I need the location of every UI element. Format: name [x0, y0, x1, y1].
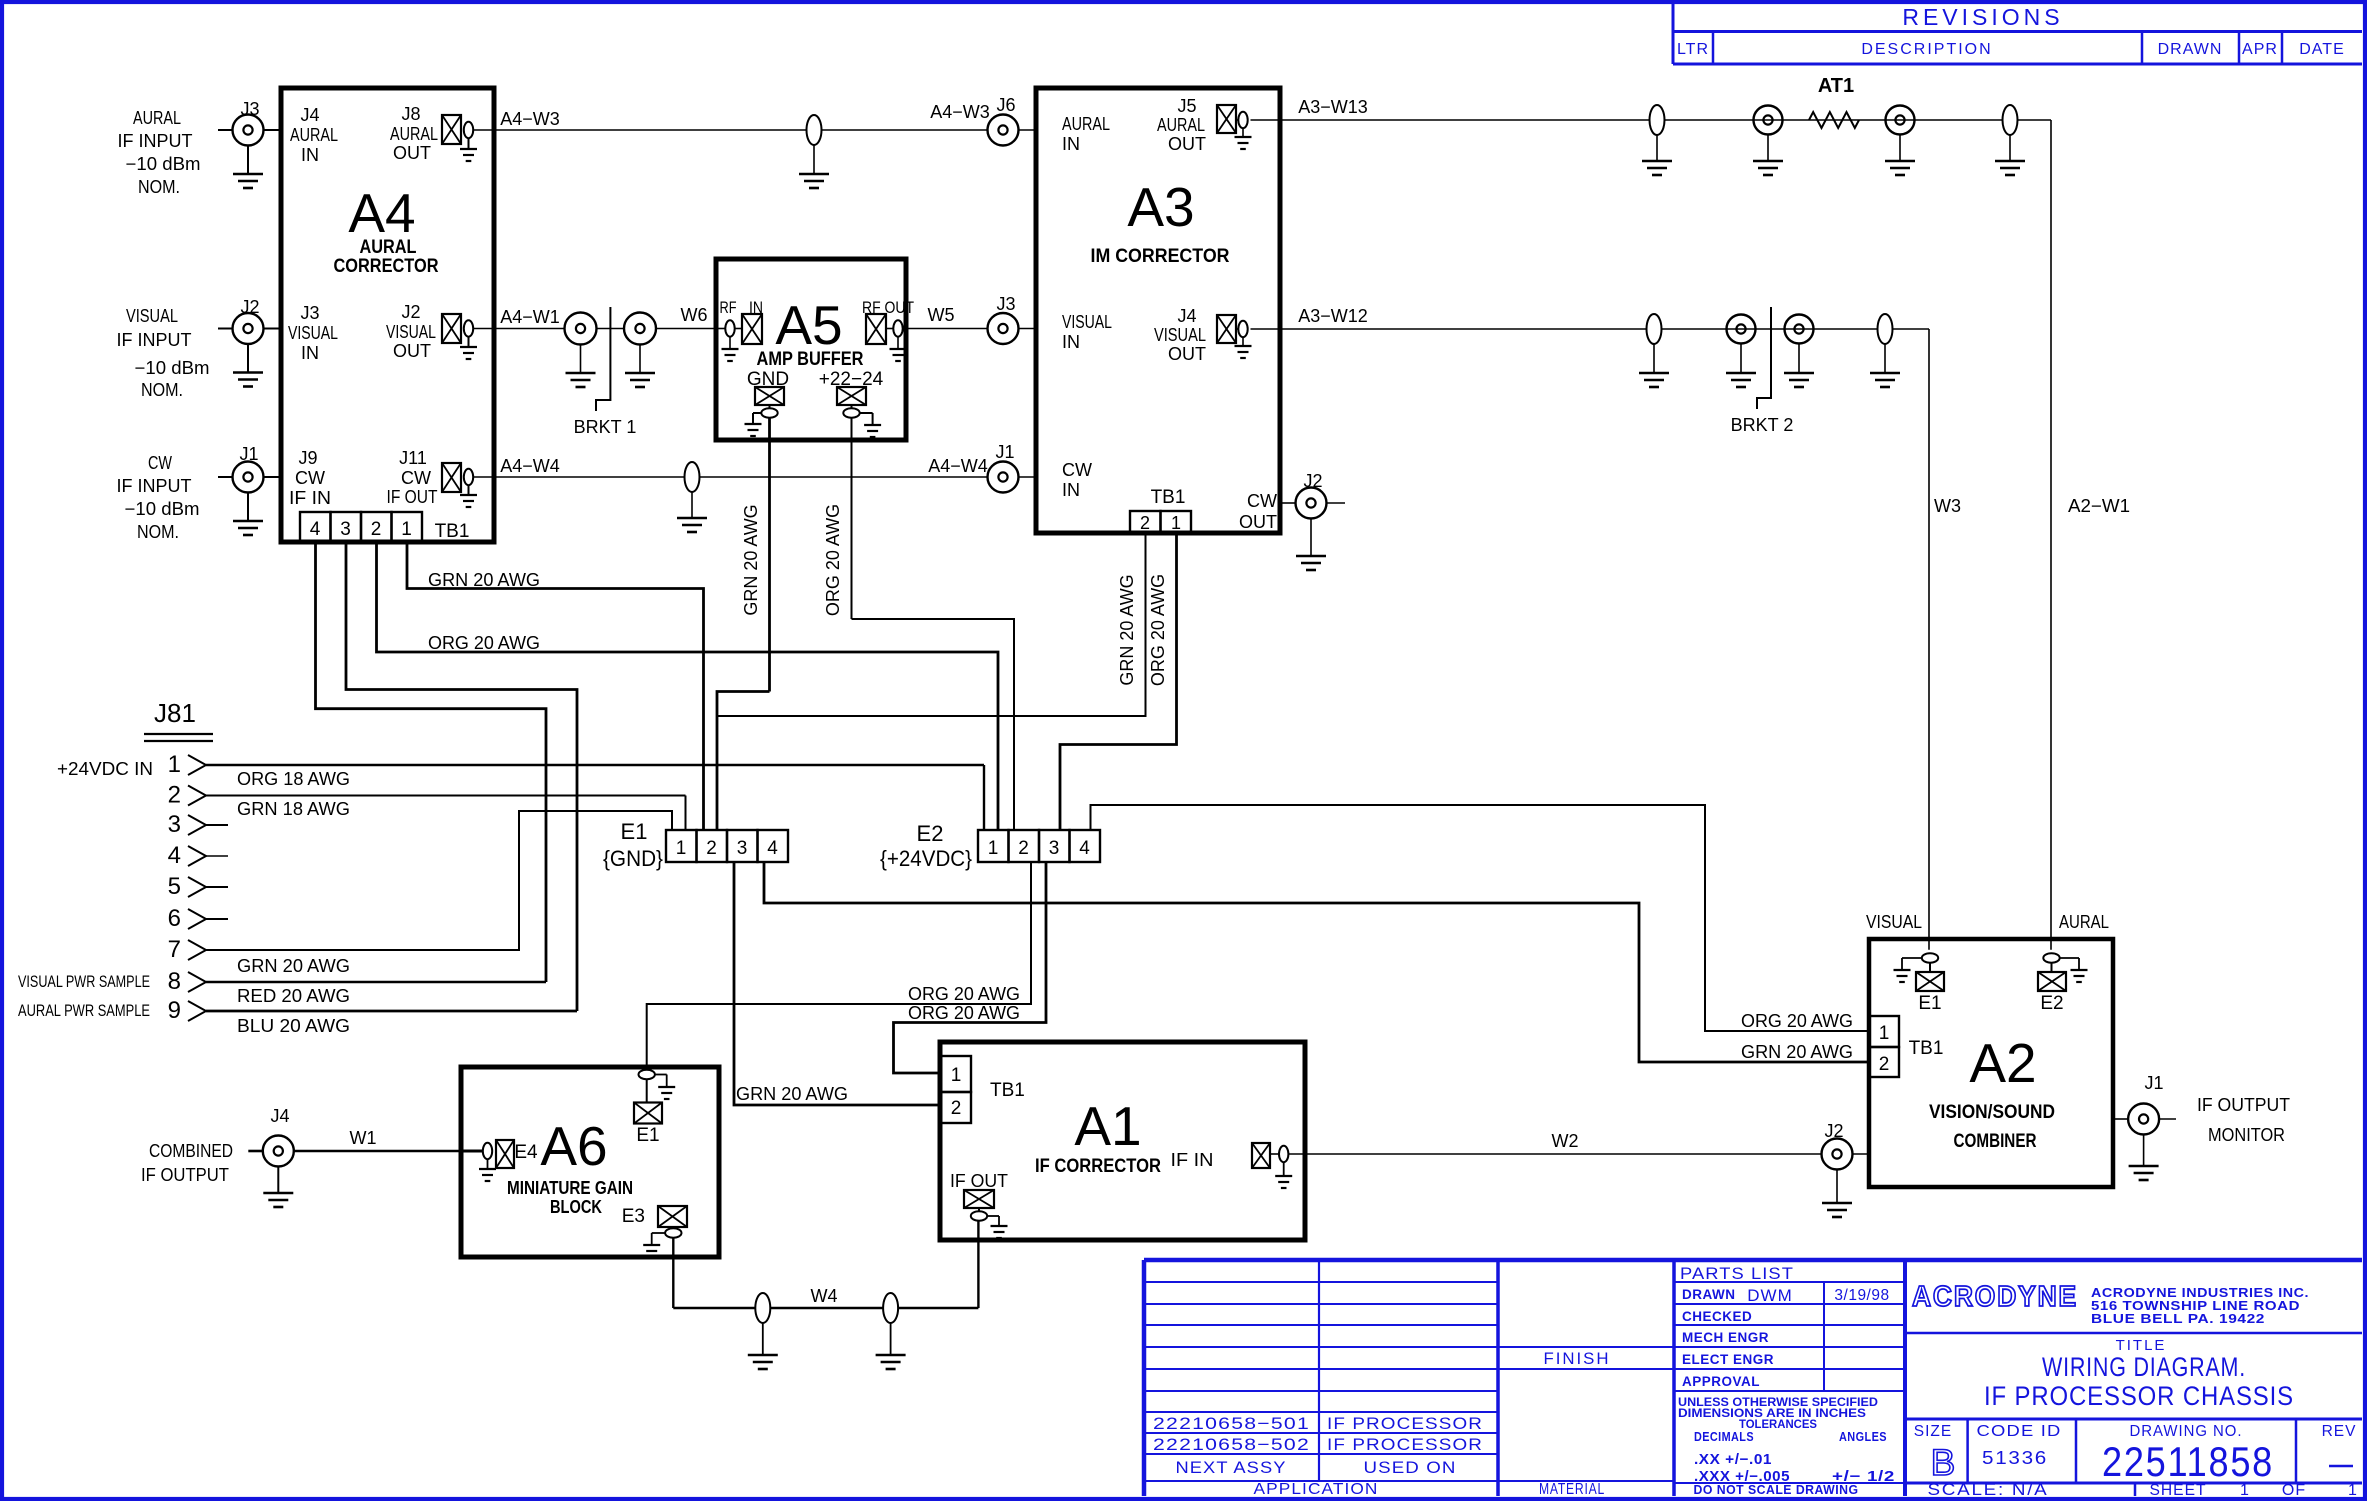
svg-text:ORG 20 AWG: ORG 20 AWG [908, 984, 1020, 1004]
svg-text:ORG 20 AWG: ORG 20 AWG [1741, 1011, 1853, 1031]
svg-text:OUT: OUT [393, 143, 431, 163]
svg-text:8: 8 [168, 968, 181, 995]
svg-text:1: 1 [2348, 1482, 2358, 1499]
svg-text:DRAWN: DRAWN [2158, 41, 2223, 58]
svg-text:DRAWN: DRAWN [1682, 1287, 1736, 1302]
svg-text:A2−W1: A2−W1 [2068, 496, 2130, 516]
svg-text:IF OUTPUT: IF OUTPUT [141, 1165, 229, 1185]
svg-text:VISUAL: VISUAL [1154, 325, 1206, 345]
svg-text:5: 5 [168, 873, 181, 900]
svg-text:APR: APR [2242, 41, 2278, 58]
svg-text:BRKT 1: BRKT 1 [574, 417, 637, 437]
svg-text:E1: E1 [621, 819, 648, 844]
svg-text:VISUAL PWR SAMPLE: VISUAL PWR SAMPLE [18, 973, 150, 991]
svg-text:TB1: TB1 [1909, 1038, 1944, 1059]
svg-text:LTR: LTR [1677, 41, 1709, 58]
svg-text:1: 1 [2240, 1482, 2250, 1499]
svg-text:A4−W3: A4−W3 [930, 102, 990, 122]
svg-text:CW: CW [148, 453, 172, 473]
svg-text:NEXT ASSY: NEXT ASSY [1176, 1458, 1287, 1477]
svg-text:REVISIONS: REVISIONS [1902, 4, 2063, 30]
svg-text:COMBINED: COMBINED [149, 1141, 233, 1161]
svg-text:{GND}: {GND} [603, 846, 663, 871]
svg-text:A6: A6 [540, 1115, 607, 1177]
svg-text:DATE: DATE [2299, 41, 2344, 58]
svg-text:BLU 20 AWG: BLU 20 AWG [237, 1016, 350, 1036]
svg-text:APPLICATION: APPLICATION [1254, 1481, 1379, 1498]
svg-text:AT1: AT1 [1818, 75, 1854, 97]
svg-text:J8: J8 [401, 104, 420, 124]
svg-text:COMBINER: COMBINER [1954, 1131, 2037, 1152]
svg-text:AURAL: AURAL [360, 237, 417, 258]
svg-text:GRN 18 AWG: GRN 18 AWG [237, 799, 350, 819]
svg-text:GRN 20 AWG: GRN 20 AWG [741, 504, 761, 615]
svg-text:REV: REV [2322, 1423, 2357, 1440]
svg-text:1: 1 [951, 1065, 962, 1086]
svg-text:{+24VDC}: {+24VDC} [880, 846, 972, 871]
svg-text:SIZE: SIZE [1914, 1423, 1952, 1440]
svg-text:2: 2 [1879, 1054, 1890, 1075]
svg-text:−10 dBm: −10 dBm [135, 358, 210, 378]
svg-text:AURAL: AURAL [1157, 115, 1205, 135]
svg-text:AURAL: AURAL [1062, 114, 1110, 134]
svg-text:A3−W12: A3−W12 [1298, 306, 1368, 326]
svg-text:IF INPUT: IF INPUT [118, 131, 193, 151]
svg-text:AURAL: AURAL [2059, 912, 2109, 932]
svg-text:J81: J81 [154, 698, 196, 728]
svg-text:CW: CW [1062, 460, 1092, 480]
svg-text:SCALE: N/A: SCALE: N/A [1928, 1481, 2049, 1499]
svg-text:ORG 18 AWG: ORG 18 AWG [237, 769, 350, 789]
svg-text:1: 1 [676, 838, 687, 859]
svg-text:AURAL: AURAL [290, 125, 338, 145]
svg-text:A4: A4 [348, 182, 415, 244]
svg-text:1: 1 [168, 751, 181, 778]
svg-text:GRN 20 AWG: GRN 20 AWG [237, 956, 350, 976]
svg-text:DO NOT SCALE DRAWING: DO NOT SCALE DRAWING [1694, 1482, 1859, 1497]
svg-text:2: 2 [371, 519, 382, 540]
svg-text:AMP BUFFER: AMP BUFFER [757, 349, 864, 370]
svg-text:J3: J3 [240, 99, 259, 119]
svg-text:GRN 20 AWG: GRN 20 AWG [428, 570, 540, 590]
svg-text:BLOCK: BLOCK [550, 1197, 602, 1217]
svg-text:J1: J1 [995, 442, 1014, 462]
svg-text:4: 4 [1079, 838, 1090, 859]
svg-text:IF PROCESSOR CHASSIS: IF PROCESSOR CHASSIS [1984, 1381, 2294, 1411]
svg-text:E2: E2 [917, 821, 944, 846]
svg-text:TB1: TB1 [435, 521, 470, 542]
svg-text:J2: J2 [1303, 471, 1322, 491]
svg-text:E1: E1 [636, 1125, 659, 1146]
svg-text:J2: J2 [1824, 1121, 1843, 1141]
svg-text:IN: IN [1062, 134, 1080, 154]
svg-text:22210658−502: 22210658−502 [1153, 1435, 1310, 1454]
svg-text:J4: J4 [1177, 306, 1196, 326]
svg-text:A2: A2 [1969, 1032, 2036, 1094]
svg-text:ACRODYNE: ACRODYNE [1912, 1281, 2078, 1313]
svg-text:CW: CW [295, 468, 325, 488]
svg-text:W5: W5 [928, 305, 955, 325]
svg-text:A4−W4: A4−W4 [500, 456, 560, 476]
svg-text:TB1: TB1 [990, 1080, 1025, 1101]
svg-text:DECIMALS: DECIMALS [1694, 1429, 1754, 1444]
svg-text:IM CORRECTOR: IM CORRECTOR [1091, 246, 1230, 267]
svg-text:ANGLES: ANGLES [1839, 1429, 1887, 1444]
svg-text:4: 4 [168, 842, 181, 869]
svg-text:IF INPUT: IF INPUT [117, 330, 192, 350]
svg-text:RED 20 AWG: RED 20 AWG [237, 986, 350, 1006]
svg-text:3/19/98: 3/19/98 [1834, 1287, 1889, 1304]
svg-text:GRN 20 AWG: GRN 20 AWG [1741, 1042, 1853, 1062]
svg-text:E3: E3 [622, 1206, 645, 1227]
svg-text:A4−W3: A4−W3 [500, 109, 560, 129]
svg-text:E1: E1 [1918, 993, 1941, 1014]
svg-text:OUT: OUT [393, 341, 431, 361]
svg-text:IF OUT: IF OUT [950, 1171, 1008, 1191]
svg-text:CW: CW [401, 468, 431, 488]
svg-text:J5: J5 [1177, 96, 1196, 116]
svg-text:4: 4 [310, 519, 321, 540]
svg-text:GRN 20 AWG: GRN 20 AWG [736, 1084, 848, 1104]
svg-text:J4: J4 [270, 1106, 289, 1126]
svg-text:VISION/SOUND: VISION/SOUND [1929, 1102, 2055, 1123]
svg-text:BRKT 2: BRKT 2 [1731, 415, 1794, 435]
svg-text:A4−W4: A4−W4 [928, 456, 988, 476]
svg-text:BLUE BELL PA. 19422: BLUE BELL PA. 19422 [2091, 1311, 2265, 1326]
svg-text:MINIATURE GAIN: MINIATURE GAIN [507, 1178, 633, 1198]
svg-text:2: 2 [1018, 838, 1029, 859]
svg-text:1: 1 [1879, 1023, 1890, 1044]
svg-text:VISUAL: VISUAL [386, 322, 436, 342]
svg-text:NOM.: NOM. [137, 522, 179, 542]
svg-text:A3: A3 [1127, 176, 1194, 238]
svg-text:J1: J1 [2144, 1073, 2163, 1093]
svg-text:RF: RF [720, 298, 737, 317]
svg-text:+24VDC IN: +24VDC IN [57, 759, 153, 779]
svg-text:SHEET: SHEET [2150, 1482, 2207, 1499]
svg-text:DESCRIPTION: DESCRIPTION [1861, 41, 1992, 58]
svg-text:AURAL: AURAL [133, 108, 181, 128]
svg-text:−10 dBm: −10 dBm [125, 499, 200, 519]
svg-text:J9: J9 [298, 448, 317, 468]
svg-text:ORG 20 AWG: ORG 20 AWG [428, 633, 540, 653]
svg-text:J1: J1 [239, 444, 258, 464]
svg-text:USED ON: USED ON [1364, 1458, 1457, 1477]
svg-text:IF PROCESSOR: IF PROCESSOR [1327, 1435, 1483, 1454]
svg-text:3: 3 [340, 519, 351, 540]
svg-text:J11: J11 [399, 448, 427, 468]
svg-text:J4: J4 [300, 105, 319, 125]
svg-text:B: B [1931, 1442, 1956, 1483]
svg-text:VISUAL: VISUAL [1062, 312, 1112, 332]
svg-text:IF INPUT: IF INPUT [117, 476, 192, 496]
svg-text:J2: J2 [240, 297, 259, 317]
svg-text:2: 2 [951, 1098, 962, 1119]
svg-text:AURAL PWR SAMPLE: AURAL PWR SAMPLE [18, 1002, 150, 1020]
svg-text:PARTS LIST: PARTS LIST [1680, 1264, 1794, 1283]
svg-text:APPROVAL: APPROVAL [1682, 1374, 1760, 1389]
svg-text:2: 2 [706, 838, 717, 859]
svg-text:IF PROCESSOR: IF PROCESSOR [1327, 1414, 1483, 1433]
svg-text:IN: IN [1062, 480, 1080, 500]
svg-text:IF OUTPUT: IF OUTPUT [2197, 1095, 2290, 1115]
svg-text:TB1: TB1 [1151, 487, 1186, 508]
svg-text:IF IN: IF IN [1171, 1150, 1214, 1170]
svg-text:A5: A5 [775, 294, 842, 356]
svg-text:WIRING DIAGRAM.: WIRING DIAGRAM. [2042, 1352, 2246, 1382]
svg-text:W2: W2 [1552, 1131, 1579, 1151]
svg-text:CODE ID: CODE ID [1977, 1423, 2062, 1440]
svg-text:CHECKED: CHECKED [1682, 1309, 1752, 1324]
svg-text:E4: E4 [514, 1142, 538, 1163]
svg-text:A4−W1: A4−W1 [500, 307, 560, 327]
svg-text:3: 3 [1049, 838, 1060, 859]
svg-text:NOM.: NOM. [141, 380, 183, 400]
svg-text:7: 7 [168, 936, 181, 963]
svg-text:1: 1 [401, 519, 412, 540]
svg-text:E2: E2 [2040, 993, 2063, 1014]
svg-text:W1: W1 [350, 1128, 377, 1148]
svg-text:NOM.: NOM. [138, 177, 180, 197]
svg-text:VISUAL: VISUAL [1866, 912, 1922, 932]
svg-text:22210658−501: 22210658−501 [1153, 1414, 1310, 1433]
svg-text:A1: A1 [1074, 1095, 1141, 1157]
svg-text:IN: IN [1062, 332, 1080, 352]
svg-text:ORG 20 AWG: ORG 20 AWG [823, 504, 843, 616]
svg-text:3: 3 [737, 838, 748, 859]
svg-text:CORRECTOR: CORRECTOR [334, 256, 439, 277]
svg-text:9: 9 [168, 997, 181, 1024]
svg-text:6: 6 [168, 905, 181, 932]
svg-text:OUT: OUT [1239, 512, 1277, 532]
svg-text:ELECT ENGR: ELECT ENGR [1682, 1352, 1774, 1367]
svg-text:J6: J6 [996, 95, 1015, 115]
svg-text:IF OUT: IF OUT [387, 487, 438, 507]
svg-text:IN: IN [301, 145, 319, 165]
svg-text:FINISH: FINISH [1544, 1349, 1611, 1368]
svg-text:MONITOR: MONITOR [2208, 1125, 2285, 1145]
svg-text:4: 4 [767, 838, 778, 859]
svg-text:DWM: DWM [1747, 1286, 1792, 1305]
svg-text:W3: W3 [1934, 496, 1961, 516]
svg-text:J3: J3 [300, 303, 319, 323]
svg-text:OF: OF [2282, 1482, 2306, 1499]
svg-text:J2: J2 [401, 302, 420, 322]
svg-text:OUT: OUT [1168, 344, 1206, 364]
svg-text:.XX +/−.01: .XX +/−.01 [1694, 1452, 1772, 1468]
svg-text:W6: W6 [681, 305, 708, 325]
svg-text:MATERIAL: MATERIAL [1539, 1481, 1605, 1498]
svg-text:51336: 51336 [1982, 1448, 2048, 1468]
svg-text:CW: CW [1247, 491, 1277, 511]
svg-text:VISUAL: VISUAL [126, 306, 178, 326]
svg-text:3: 3 [168, 811, 181, 838]
svg-text:2: 2 [1140, 513, 1150, 533]
svg-text:2: 2 [168, 782, 181, 809]
svg-text:IF IN: IF IN [289, 488, 331, 508]
svg-text:ORG 20 AWG: ORG 20 AWG [908, 1003, 1020, 1023]
svg-text:IF CORRECTOR: IF CORRECTOR [1035, 1156, 1161, 1177]
svg-text:22511858: 22511858 [2102, 1438, 2274, 1485]
svg-text:ORG 20 AWG: ORG 20 AWG [1148, 574, 1168, 686]
svg-text:−10 dBm: −10 dBm [126, 154, 201, 174]
svg-text:OUT: OUT [1168, 134, 1206, 154]
svg-text:GRN 20 AWG: GRN 20 AWG [1117, 574, 1137, 685]
svg-text:1: 1 [1171, 513, 1181, 533]
svg-text:J3: J3 [996, 294, 1015, 314]
svg-text:A3−W13: A3−W13 [1298, 97, 1368, 117]
svg-text:MECH ENGR: MECH ENGR [1682, 1330, 1769, 1345]
svg-text:VISUAL: VISUAL [288, 323, 338, 343]
svg-text:IN: IN [301, 343, 319, 363]
svg-text:AURAL: AURAL [390, 124, 438, 144]
svg-text:W4: W4 [811, 1286, 838, 1306]
svg-text:1: 1 [988, 838, 999, 859]
